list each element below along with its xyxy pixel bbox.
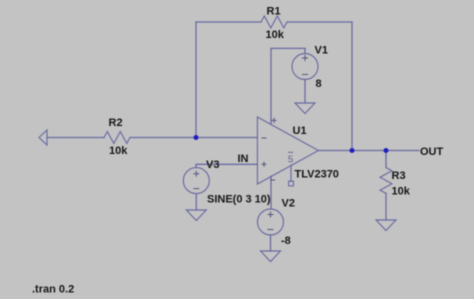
voltage source V2 bbox=[258, 209, 284, 235]
resistor R3 bbox=[380, 168, 392, 194]
V3 minus marker bbox=[193, 188, 199, 190]
wire R3 bottom to ground bbox=[385, 193, 387, 220]
svg-text:R3: R3 bbox=[392, 170, 406, 182]
svg-text:OUT: OUT bbox=[420, 146, 444, 158]
junction R3 node dot bbox=[384, 148, 389, 153]
svg-text:V3: V3 bbox=[206, 159, 219, 171]
svg-text:-8: -8 bbox=[281, 235, 291, 247]
ground under V2 bbox=[261, 251, 281, 262]
wire node A up to feedback bbox=[195, 22, 197, 138]
wire feedback down to output node bbox=[351, 22, 353, 151]
port flag IN (left input arrow) bbox=[39, 130, 47, 145]
svg-text:V2: V2 bbox=[282, 198, 295, 210]
wire node A to op-amp inverting input bbox=[196, 137, 257, 139]
svg-text:TLV2370: TLV2370 bbox=[295, 169, 339, 181]
resistor R2 bbox=[104, 132, 130, 144]
svg-text:10k: 10k bbox=[392, 186, 411, 198]
op-amp V+ marker bbox=[272, 118, 277, 123]
svg-text:10k: 10k bbox=[109, 145, 128, 157]
junction node A dot bbox=[194, 135, 199, 140]
svg-text:R2: R2 bbox=[109, 117, 123, 129]
shutdown pin open square bbox=[289, 181, 294, 186]
svg-text:.tran 0.2: .tran 0.2 bbox=[32, 284, 74, 296]
wire V3 bottom to ground bbox=[195, 194, 197, 210]
V1 plus marker bbox=[302, 55, 308, 61]
V2 minus marker bbox=[268, 229, 274, 231]
wire feedback top left bbox=[196, 21, 261, 23]
op-amp U1 triangle bbox=[257, 117, 318, 184]
wire port to R2 bbox=[47, 137, 104, 139]
wire V2 bottom to ground bbox=[270, 235, 272, 251]
voltage source V1 bbox=[292, 54, 318, 80]
wire feedback top right bbox=[287, 21, 352, 23]
op-amp shutdown pin stub bbox=[290, 165, 292, 182]
resistor R1 bbox=[261, 16, 287, 28]
svg-text:V1: V1 bbox=[315, 45, 328, 57]
V1 minus marker bbox=[302, 74, 308, 76]
voltage source V3 bbox=[183, 168, 209, 194]
ground under R3 bbox=[376, 220, 396, 231]
wire V1 top stub bbox=[304, 48, 306, 53]
op-amp minus input marker bbox=[262, 137, 267, 139]
svg-text:U1: U1 bbox=[293, 125, 307, 137]
svg-text:10k: 10k bbox=[266, 29, 285, 41]
ground under V3 bbox=[186, 210, 206, 221]
ground under V1 bbox=[295, 103, 315, 114]
svg-text:8: 8 bbox=[316, 78, 322, 90]
svg-text:5: 5 bbox=[288, 154, 294, 165]
op-amp plus input marker bbox=[262, 162, 267, 167]
junction output node dot bbox=[350, 148, 355, 153]
wire IN node: V3 to op-amp non-inverting input bbox=[196, 164, 257, 167]
wire op-amp output to OUT bbox=[318, 150, 419, 152]
svg-text:R1: R1 bbox=[267, 5, 281, 17]
wire R2 to node A bbox=[130, 137, 196, 139]
op-amp V+ supply wire bbox=[270, 48, 272, 124]
V3 plus marker bbox=[193, 171, 199, 177]
svg-text:SINE(0 3 10): SINE(0 3 10) bbox=[207, 194, 271, 206]
op-amp V- marker bbox=[270, 179, 275, 181]
wire V1 bottom to ground bbox=[304, 80, 306, 104]
op-amp input/supply markers bbox=[193, 55, 308, 230]
V2 plus marker bbox=[268, 212, 274, 218]
svg-text:IN: IN bbox=[238, 153, 249, 165]
wire R3 top bbox=[385, 151, 387, 168]
wire V1 top horizontal bbox=[271, 47, 305, 49]
op-amp V- supply wire bbox=[270, 176, 272, 209]
